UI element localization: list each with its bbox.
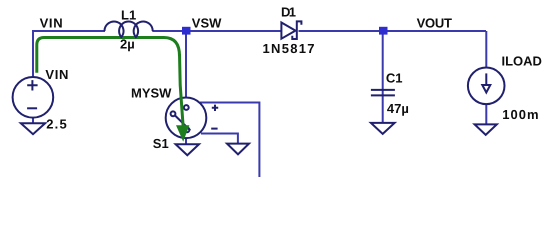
svg-text:47µ: 47µ: [387, 101, 409, 116]
svg-text:VIN: VIN: [40, 16, 63, 31]
wire VOUT through C1 to ground: [382, 31, 384, 123]
VIN minus sign: [27, 107, 37, 109]
svg-text:L1: L1: [121, 7, 136, 22]
ground at C1: [371, 123, 395, 134]
green highlighted current path VIN->L1 (under inductor): [37, 38, 180, 73]
ground at switch - pin: [227, 144, 249, 155]
node VSW junction square: [182, 27, 191, 35]
svg-text:2.5: 2.5: [46, 117, 66, 132]
green current path down into switch (over switch): [180, 54, 184, 126]
green arrowhead into switch: [176, 125, 189, 141]
svg-text:VOUT: VOUT: [417, 16, 452, 31]
inductor L1 coil: [105, 22, 153, 38]
switch lever: [175, 115, 190, 130]
wire switch bottom to ground: [185, 138, 187, 144]
wire switch - pin to ground: [201, 134, 238, 144]
svg-text:100m: 100m: [502, 107, 538, 122]
VIN plus sign: [27, 80, 37, 90]
voltage source VIN circle: [13, 77, 54, 118]
node VOUT junction square: [379, 27, 388, 35]
svg-text:VIN: VIN: [45, 67, 68, 82]
wire VSW to switch: [185, 31, 187, 98]
svg-text:ILOAD: ILOAD: [502, 53, 542, 68]
switch top terminal dot: [184, 105, 189, 110]
svg-text:VSW: VSW: [192, 15, 222, 30]
wire VIN to ground: [32, 117, 34, 123]
wire top rail left (VIN corner to L1): [33, 31, 105, 77]
switch - control glyph: [211, 128, 217, 130]
ground below switch: [176, 144, 199, 155]
svg-text:C1: C1: [386, 70, 403, 85]
svg-text:D1: D1: [281, 4, 296, 19]
wire: [33, 31, 486, 178]
wire corner down to ILOAD: [485, 31, 487, 68]
svg-text:1N5817: 1N5817: [263, 41, 315, 56]
wire L1 to diode through VSW: [152, 30, 281, 32]
wire ILOAD to ground: [485, 104, 487, 125]
diode D1 triangle: [281, 23, 295, 39]
switch bottom terminal dot: [185, 127, 190, 132]
switch S1 body circle: [166, 98, 207, 139]
current source ILOAD circle: [468, 68, 505, 105]
switch + control glyph: [212, 105, 218, 111]
ILOAD arrowhead: [482, 85, 490, 93]
svg-text:S1: S1: [153, 136, 169, 151]
wire diode to ILOAD corner through VOUT: [299, 30, 487, 32]
capacitor C1 plates: [371, 90, 395, 96]
diode D1 schottky cathode bar: [292, 21, 301, 39]
wire switch + pin to bottom edge: [200, 103, 259, 179]
ILOAD arrow shaft: [485, 73, 487, 85]
svg-text:2µ: 2µ: [120, 37, 135, 52]
switch lever end dot: [171, 111, 176, 116]
svg-text:MYSW: MYSW: [131, 86, 172, 101]
ground at VIN: [21, 123, 45, 134]
ground at ILOAD: [475, 124, 497, 134]
